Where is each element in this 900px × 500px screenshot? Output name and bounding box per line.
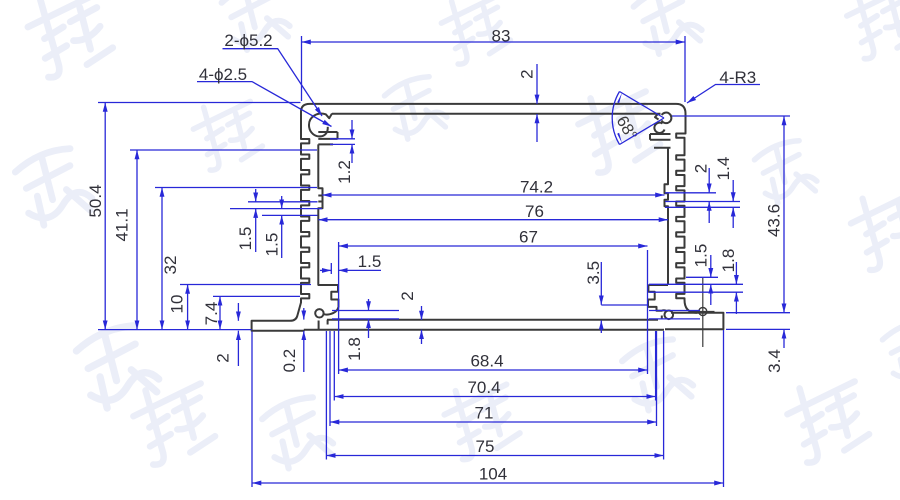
top-left pcb slot: [318, 132, 337, 144]
right plate hook end: [661, 316, 663, 320]
dim 75: [326, 455, 663, 457]
svg-text:10: 10: [168, 295, 187, 314]
right bottom screw slot: [648, 285, 655, 307]
svg-text:1.2: 1.2: [335, 160, 354, 184]
dim 2 right wall: [708, 168, 710, 193]
svg-text:0.2: 0.2: [280, 349, 299, 373]
dimension texts: [86, 27, 784, 484]
dim 83: [302, 41, 686, 43]
body outer contour with heatsink fins: [252, 104, 724, 331]
left wall inner edge with card-guide ridges: [318, 144, 322, 285]
svg-text:76: 76: [525, 202, 544, 221]
top-right screw boss: [662, 113, 672, 124]
right bottom bead: [665, 311, 674, 320]
dim 1.8 bottom left: [368, 299, 370, 311]
left bottom screw slot: [331, 285, 338, 307]
top-right boss ear: [654, 123, 664, 133]
dim 71: [330, 421, 657, 423]
dim 2 left foot: [237, 303, 239, 321]
dim 70.4: [334, 396, 655, 398]
dim 32: [161, 188, 163, 330]
dim 41.1: [136, 150, 138, 330]
svg-text:2: 2: [214, 353, 233, 362]
dim 76: [318, 219, 668, 221]
right bottom boss ledge: [648, 284, 668, 286]
dim 43.6: [783, 116, 785, 313]
svg-text:68.4: 68.4: [470, 352, 503, 371]
svg-text:70.4: 70.4: [467, 378, 500, 397]
top-right boss notch to wall: [655, 114, 659, 120]
dim 2 plate: [421, 306, 423, 320]
angular dim 68 fan: [612, 92, 664, 145]
svg-text:1.4: 1.4: [714, 157, 733, 181]
svg-text:3.5: 3.5: [584, 261, 603, 285]
dim 2 top wall: [536, 64, 538, 104]
dim 7.4: [219, 296, 221, 329]
leader 4-dia2.5: [197, 82, 332, 127]
dim 1.5 right lower: [710, 255, 712, 277]
svg-text:1.5: 1.5: [236, 227, 255, 251]
right wall inner edge with card-guide ridges: [665, 148, 669, 285]
right foot screw hole: [699, 308, 707, 316]
leader 4-R3: [687, 85, 760, 104]
left ridge slot lines: [318, 196, 322, 202]
svg-text:2: 2: [692, 164, 711, 173]
dim 68.4: [339, 369, 648, 371]
dim 50.4: [104, 103, 106, 330]
svg-text:1.5: 1.5: [692, 244, 711, 268]
dim 1.5 finger slot: [320, 269, 331, 271]
bottom reference line: [98, 329, 252, 331]
svg-text:50.4: 50.4: [86, 184, 105, 217]
dim 1.4 right wall: [732, 180, 734, 202]
svg-text:4-R3: 4-R3: [719, 68, 756, 87]
svg-text:41.1: 41.1: [113, 208, 132, 241]
svg-text:2: 2: [398, 291, 417, 300]
svg-text:1.5: 1.5: [263, 233, 282, 257]
svg-text:104: 104: [479, 465, 507, 484]
left bottom bead: [315, 309, 323, 317]
svg-text:74.2: 74.2: [520, 178, 553, 197]
svg-text:4-ϕ2.5: 4-ϕ2.5: [199, 65, 247, 84]
left bottom boss ledge: [318, 284, 338, 286]
bottom cover plate: [304, 320, 664, 330]
right hook stubs: [649, 310, 700, 312]
left plate hook end: [319, 320, 328, 330]
dim 3.4: [783, 329, 785, 348]
right bottom beak: [648, 307, 667, 311]
svg-text:71: 71: [475, 404, 494, 423]
dim 1.8 right lower: [735, 262, 737, 284]
svg-text:1.5: 1.5: [358, 252, 382, 271]
dim 3.5: [600, 262, 602, 305]
dim 74.2: [322, 194, 664, 196]
right foot top edge: [671, 312, 697, 314]
svg-text:67: 67: [519, 228, 538, 247]
right foot hole centerlines: [691, 277, 715, 347]
svg-text:83: 83: [492, 27, 511, 46]
svg-text:2-ϕ5.2: 2-ϕ5.2: [224, 31, 272, 50]
dim 1.5 left lower: [281, 196, 283, 209]
svg-text:7.4: 7.4: [202, 302, 221, 326]
svg-text:3.4: 3.4: [765, 349, 784, 373]
svg-text:43.6: 43.6: [765, 204, 784, 237]
top-left screw boss: [309, 114, 332, 137]
dim 104: [252, 482, 724, 484]
body top inner edge: [332, 113, 661, 115]
dim 10: [187, 285, 189, 330]
dimensions: [98, 36, 790, 487]
top-right pcb slot: [650, 134, 671, 148]
svg-text:32: 32: [161, 256, 180, 275]
left bottom beak: [323, 307, 338, 315]
svg-text:2: 2: [518, 69, 537, 78]
dim 1.2: [351, 120, 353, 139]
svg-text:1.8: 1.8: [719, 249, 738, 273]
svg-text:1.8: 1.8: [345, 337, 364, 361]
leader 2-dia5.2: [223, 49, 323, 116]
dim 67: [339, 245, 648, 247]
dim 1.5 left upper: [255, 189, 257, 202]
svg-text:75: 75: [476, 437, 495, 456]
profile main body outline: [252, 104, 724, 347]
dim 0.2: [303, 308, 305, 320]
